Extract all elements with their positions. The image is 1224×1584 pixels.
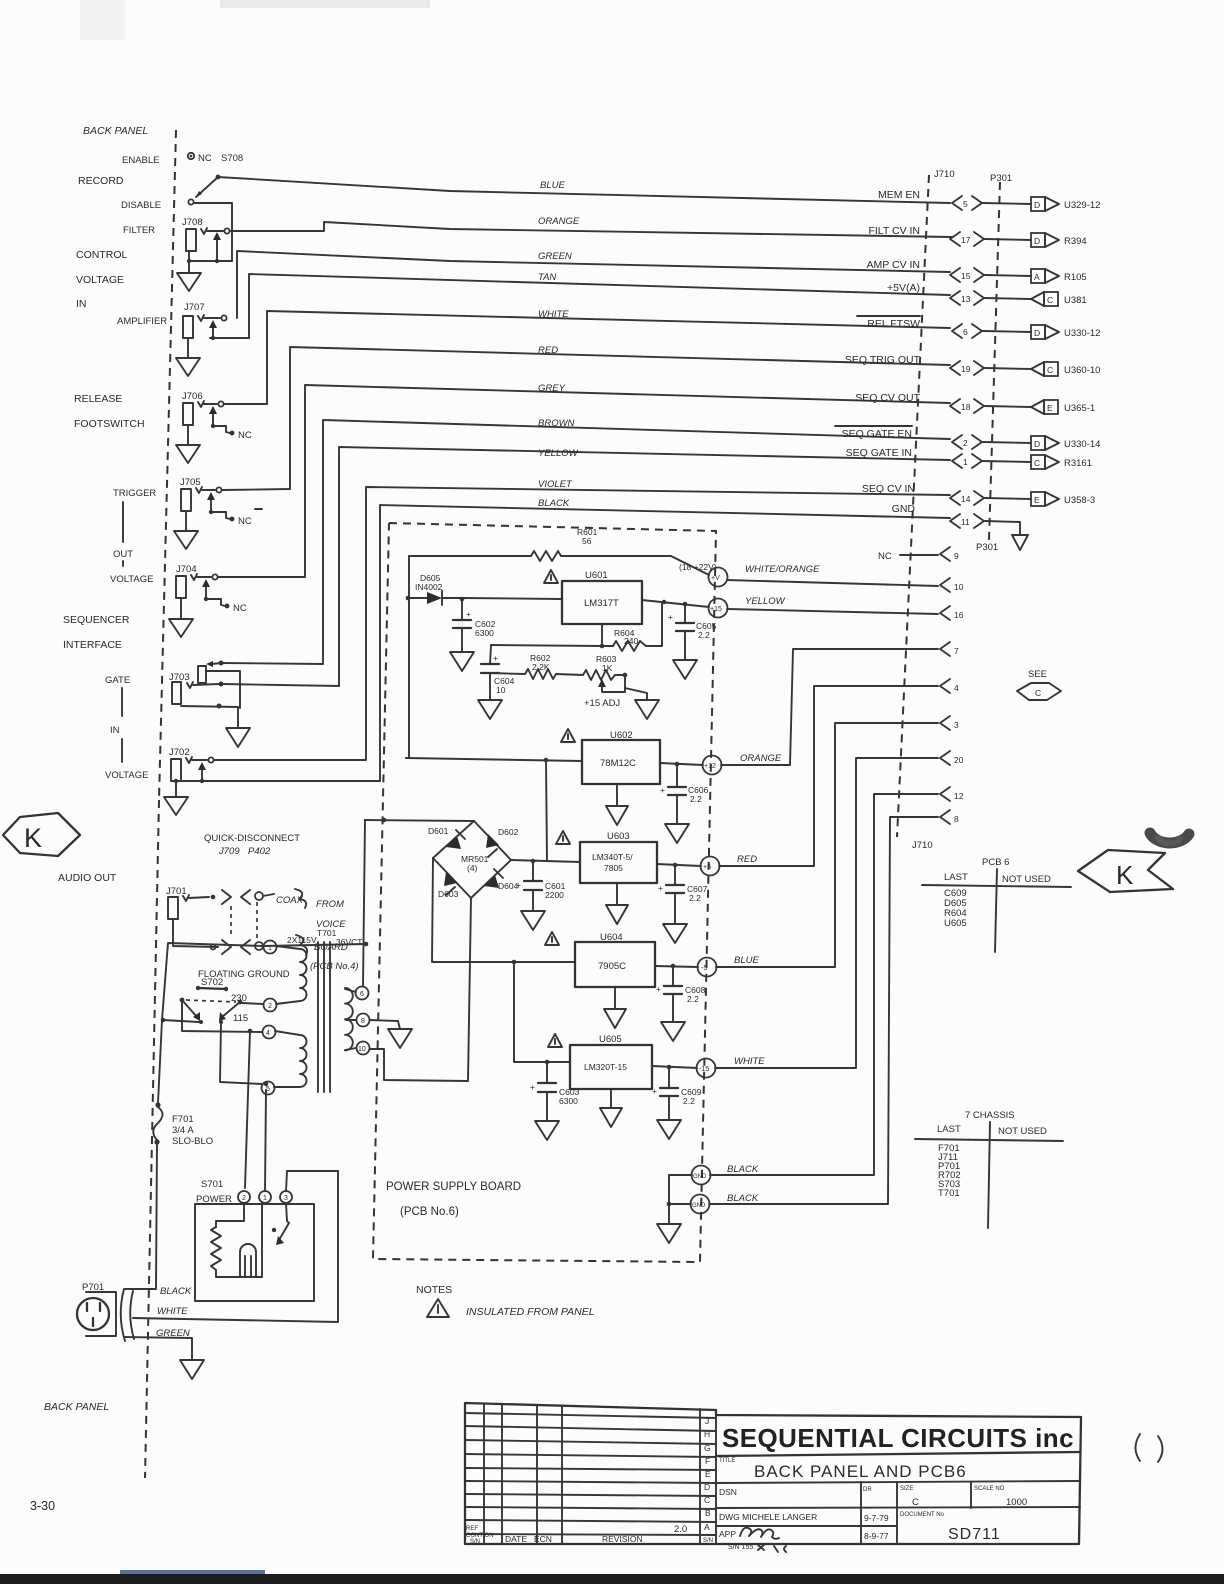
NC contact (J704) <box>206 599 225 606</box>
svg-text:PCB 6: PCB 6 <box>982 857 1009 868</box>
wire pin 5 / S701 pin 1 <box>265 1090 266 1191</box>
svg-text:U604: U604 <box>600 932 623 943</box>
svg-text:NOT USED: NOT USED <box>1002 874 1051 885</box>
svg-text:RED: RED <box>538 345 558 356</box>
svg-text:DSN: DSN <box>719 1487 737 1497</box>
svg-text:GREY: GREY <box>538 383 566 394</box>
svg-text:OUT: OUT <box>113 549 133 560</box>
switch S708 record enable/disable <box>188 153 194 159</box>
T701 core <box>317 942 319 1092</box>
svg-text:3: 3 <box>284 1195 288 1202</box>
svg-text:+5: +5 <box>703 864 711 871</box>
back panel boundary (dashed) <box>159 130 176 800</box>
svg-text:1: 1 <box>963 457 968 467</box>
ground (C603) <box>535 1121 559 1140</box>
svg-text:U602: U602 <box>610 730 633 741</box>
svg-text:+: + <box>493 653 498 663</box>
svg-text:9: 9 <box>954 551 959 561</box>
svg-text:36VCT: 36VCT <box>336 937 362 947</box>
capacitor C604 10 <box>490 645 491 664</box>
svg-text:S708: S708 <box>221 153 243 164</box>
output +5 circle <box>701 857 720 876</box>
insulated-from-panel triangle (U603) <box>556 831 570 844</box>
wire BROWN (SEQ GATE EN) <box>223 420 950 664</box>
ground (J706) <box>187 425 189 445</box>
diode D601 <box>446 836 461 849</box>
svg-text:AMP CV IN: AMP CV IN <box>867 259 920 271</box>
quick-disconnect J709 / P402 (signal) <box>222 890 231 904</box>
svg-text:18: 18 <box>961 402 971 412</box>
svg-text:LAST: LAST <box>937 1124 961 1135</box>
ground (J708) <box>188 251 190 273</box>
svg-text:NC: NC <box>198 153 212 164</box>
svg-text:RELEASE: RELEASE <box>74 393 122 405</box>
pin 8 (gnd black) <box>709 817 938 1204</box>
svg-text:BACK PANEL: BACK PANEL <box>44 1401 109 1413</box>
svg-text:7805: 7805 <box>604 863 623 873</box>
svg-text:SEQ CV OUT: SEQ CV OUT <box>855 392 920 404</box>
T701 pin 1 <box>264 941 277 954</box>
svg-text:5: 5 <box>963 199 968 209</box>
svg-text:YELLOW: YELLOW <box>538 448 579 459</box>
svg-text:10: 10 <box>358 1046 366 1053</box>
svg-text:NC: NC <box>238 430 252 441</box>
NC contact (J705) <box>211 512 230 519</box>
ground (C605) <box>673 660 697 679</box>
output -15 circle <box>697 1059 716 1078</box>
svg-text:8-9-77: 8-9-77 <box>864 1531 889 1541</box>
U605 output wire to -15 <box>652 1066 697 1068</box>
off-page flag D to U330-12 <box>1031 325 1045 339</box>
off-page flag K (left) <box>3 813 80 856</box>
wire ORANGE (FILT CV IN) <box>230 222 952 237</box>
output GND circle (pin 12) <box>692 1166 711 1185</box>
insulated-from-panel triangle (U601) <box>544 570 558 583</box>
quick-disconnect (floating ground) <box>173 919 218 947</box>
svg-text:2.0: 2.0 <box>674 1524 687 1535</box>
svg-text:U603: U603 <box>607 831 630 842</box>
ground (C601) <box>521 911 545 930</box>
svg-text:E: E <box>1034 495 1040 505</box>
svg-text:YELLOW: YELLOW <box>745 596 786 607</box>
diode D604 <box>484 875 499 888</box>
gnd circles to ground triangle <box>669 1175 692 1224</box>
svg-text:SEQ GATE EN: SEQ GATE EN <box>842 428 912 440</box>
svg-text:+12: +12 <box>704 763 716 770</box>
ground (J702) <box>175 781 177 797</box>
svg-text:15: 15 <box>961 271 971 281</box>
S701 pin 2 <box>238 1191 250 1203</box>
bridge rectifier MR501 (4) D601-D604 <box>433 821 474 858</box>
title block field dividers <box>860 1482 862 1544</box>
pin 10 (+V white/orange) <box>727 580 938 586</box>
T701 secondary winding <box>345 988 353 1050</box>
svg-text:DOCUMENT No: DOCUMENT No <box>900 1512 945 1518</box>
wire junction to S701 pin 2 <box>245 1031 250 1188</box>
svg-text:FILTER: FILTER <box>123 225 155 236</box>
svg-text:U330-12: U330-12 <box>1064 328 1100 339</box>
U601 adj rail and resistor R604 240 <box>601 624 603 646</box>
svg-text:S702: S702 <box>201 977 223 988</box>
svg-text:IN: IN <box>76 298 87 310</box>
svg-text:2X115V: 2X115V <box>287 935 317 945</box>
svg-text:+15: +15 <box>710 606 722 613</box>
svg-text:REF: REF <box>466 1526 478 1532</box>
svg-text:T701: T701 <box>938 1188 960 1199</box>
svg-text:SEQ GATE IN: SEQ GATE IN <box>846 447 912 459</box>
svg-text:BLUE: BLUE <box>734 955 759 966</box>
U602 output wire to +12 <box>660 763 703 765</box>
pin 20 (-15 white) <box>715 758 938 1068</box>
svg-text:SD711: SD711 <box>948 1526 1001 1543</box>
svg-text:DR: DR <box>863 1487 872 1493</box>
svg-text:R3161: R3161 <box>1064 458 1092 469</box>
svg-text:FILT CV IN: FILT CV IN <box>868 225 920 237</box>
voltage regulator U601 LM317T <box>562 581 642 624</box>
svg-text:BROWN: BROWN <box>538 418 575 429</box>
svg-text:TITLE: TITLE <box>719 1458 735 1464</box>
output -5 circle <box>698 958 717 977</box>
svg-text:D: D <box>1034 439 1040 449</box>
wire TAN (+5V(A)) <box>249 274 950 338</box>
ground arrow (GND pin 11) <box>985 521 1020 535</box>
T701 pin 2 <box>264 999 277 1012</box>
svg-text:SEE: SEE <box>1028 669 1047 680</box>
svg-text:2200: 2200 <box>545 890 564 900</box>
svg-text:J710: J710 <box>934 169 955 180</box>
svg-text:NC: NC <box>233 603 247 614</box>
wire WHITE (REL FTSW) <box>224 311 950 404</box>
ground (U603) <box>616 883 618 905</box>
svg-text:REVISION: REVISION <box>602 1534 643 1544</box>
svg-text:S/N: S/N <box>470 1539 480 1545</box>
svg-text:12: 12 <box>954 791 964 801</box>
svg-text:1K: 1K <box>602 663 613 673</box>
output +12 circle <box>703 756 722 775</box>
svg-text:IN4002: IN4002 <box>415 582 443 592</box>
svg-text:BLACK: BLACK <box>727 1193 759 1204</box>
svg-text:+: + <box>658 883 663 893</box>
svg-text:G: G <box>704 1443 711 1453</box>
svg-text:WHITE: WHITE <box>157 1306 188 1317</box>
off-page flag C to U360-10 (left pointing) <box>1031 362 1044 376</box>
U602 input wire <box>406 758 582 761</box>
svg-text:2.2: 2.2 <box>698 630 710 640</box>
svg-text:E: E <box>1047 403 1053 413</box>
svg-text:4: 4 <box>266 1030 270 1037</box>
svg-text:E: E <box>705 1469 711 1479</box>
capacitor C608 2.2 <box>672 966 674 986</box>
svg-text:8: 8 <box>954 814 959 824</box>
svg-text:6: 6 <box>963 327 968 337</box>
svg-text:U381: U381 <box>1064 295 1087 306</box>
svg-text:+: + <box>466 609 471 619</box>
T701 pin 4 <box>263 1026 276 1039</box>
resistor R601 <box>409 555 531 557</box>
capacitor C605 2.2 <box>684 604 686 623</box>
svg-text:2.2: 2.2 <box>683 1096 695 1106</box>
wiper (R603) <box>598 679 606 687</box>
T701 pin 6 <box>356 987 369 1000</box>
connector P301 (dashed) <box>989 182 1000 540</box>
off-page flag K (right) <box>1078 850 1173 892</box>
svg-text:APP: APP <box>719 1529 736 1539</box>
svg-text:VOLTAGE: VOLTAGE <box>110 574 153 585</box>
svg-text:C: C <box>1047 295 1053 305</box>
potentiometer R603 1K (+15 ADJ) <box>583 670 615 680</box>
resistor R602 2.2K <box>490 673 525 674</box>
capacitor C603 6300 <box>545 1060 550 1065</box>
S701 enclosure box <box>195 1204 314 1301</box>
output GND circle (pin 8) <box>691 1195 710 1214</box>
svg-text:D601: D601 <box>428 826 449 836</box>
ground (C604) <box>478 700 502 719</box>
svg-text:SCALE NO: SCALE NO <box>974 1486 1005 1492</box>
svg-text:K: K <box>1116 860 1134 890</box>
svg-text:4: 4 <box>954 683 959 693</box>
off-page flag D to U330-14 <box>1031 436 1045 450</box>
svg-text:J705: J705 <box>180 477 201 488</box>
svg-text:DWG MICHELE LANGER: DWG MICHELE LANGER <box>719 1512 817 1522</box>
svg-text:K: K <box>24 823 42 853</box>
svg-text:POWER SUPPLY BOARD: POWER SUPPLY BOARD <box>386 1181 521 1193</box>
title block outer frame <box>465 1403 1081 1544</box>
svg-text:6300: 6300 <box>475 628 494 638</box>
insulated-from-panel triangle (U602) <box>561 729 575 742</box>
svg-text:115: 115 <box>233 1013 248 1024</box>
capacitor C606 2.2 <box>676 764 678 787</box>
svg-text:LAST: LAST <box>944 872 968 883</box>
fuse F701 3/4A SLO-BLO <box>155 1102 160 1107</box>
NC contact (J706) <box>213 426 230 433</box>
wire pole to pin 4 <box>182 1000 262 1032</box>
S701 pin 1 <box>259 1191 271 1203</box>
neon lamp (S701) <box>240 1244 256 1277</box>
capacitor C609 2.2 <box>668 1067 670 1088</box>
S701 lamp resistor branch <box>216 1203 244 1227</box>
svg-text:NC: NC <box>238 516 252 527</box>
svg-text:VIOLET: VIOLET <box>538 479 573 490</box>
svg-text:+: + <box>668 612 673 622</box>
wire RED (SEQ TRIG OUT) <box>222 347 950 490</box>
wire BLACK (mains) <box>125 1288 156 1290</box>
svg-text:1: 1 <box>263 1195 267 1202</box>
bridge minus rail to U604/U605 <box>432 858 575 962</box>
svg-text:T701: T701 <box>317 928 337 938</box>
svg-text:BLACK: BLACK <box>538 498 570 509</box>
svg-text:J706: J706 <box>182 391 203 402</box>
wire VIOLET (SEQ CV IN) <box>214 487 950 760</box>
svg-text:GND: GND <box>692 1203 706 1209</box>
svg-text:TRIGGER: TRIGGER <box>113 488 156 499</box>
off-page flag C to U381 (left pointing) <box>1031 292 1044 306</box>
svg-text:SEQ TRIG OUT: SEQ TRIG OUT <box>845 354 921 366</box>
wire 115 contact to pin 5 <box>220 1022 262 1084</box>
svg-text:CONTROL: CONTROL <box>76 249 127 261</box>
scan blob (fingerprint) <box>1150 833 1189 843</box>
capacitor C602 6300 <box>460 597 465 602</box>
power supply board outline (dashed) <box>373 523 716 1262</box>
U604 output wire to -5 <box>655 966 698 967</box>
svg-text:14: 14 <box>961 494 971 504</box>
svg-text:INSULATED FROM PANEL: INSULATED FROM PANEL <box>466 1306 595 1318</box>
svg-text:20: 20 <box>954 755 964 765</box>
ground (C602) <box>450 652 474 671</box>
svg-text:1: 1 <box>268 945 272 952</box>
ground (C609) <box>657 1120 681 1139</box>
svg-text:D: D <box>704 1482 710 1492</box>
svg-text:J702: J702 <box>169 747 190 758</box>
output +V circle <box>709 568 728 587</box>
svg-text:QUICK-DISCONNECT: QUICK-DISCONNECT <box>204 833 300 844</box>
wire pin 1 to fuse <box>158 943 263 1103</box>
svg-text:2: 2 <box>268 1003 272 1010</box>
svg-text:RED: RED <box>737 854 757 865</box>
svg-text:U358-3: U358-3 <box>1064 495 1095 506</box>
svg-text:P301: P301 <box>990 173 1012 184</box>
svg-text:+: + <box>656 984 661 994</box>
revision table verticals <box>483 1404 485 1544</box>
diode D602 <box>486 834 499 848</box>
svg-text:56: 56 <box>582 536 592 546</box>
svg-text:ORANGE: ORANGE <box>740 753 782 764</box>
U601 output wire <box>642 600 709 607</box>
wire 230 contact to pin 2 <box>242 1003 263 1004</box>
svg-text:D602: D602 <box>498 827 519 837</box>
svg-text:REL FTSW: REL FTSW <box>867 318 920 330</box>
insulated-from-panel triangle (U604) <box>545 932 559 945</box>
S701 pin 3 <box>280 1191 292 1203</box>
svg-text:C: C <box>1034 458 1040 468</box>
svg-text:BLUE: BLUE <box>540 180 565 191</box>
svg-text:WHITE/ORANGE: WHITE/ORANGE <box>745 564 820 575</box>
raw supply rail loop <box>406 556 409 758</box>
svg-text:+15 ADJ: +15 ADJ <box>584 698 620 709</box>
svg-text:B: B <box>705 1508 711 1518</box>
bridge plus output to U603 <box>511 860 580 862</box>
svg-text:11: 11 <box>961 517 970 527</box>
svg-text:3/4 A: 3/4 A <box>172 1125 194 1136</box>
svg-text:-5: -5 <box>701 965 707 972</box>
svg-text:C: C <box>1035 688 1041 698</box>
svg-text:D603: D603 <box>438 889 459 899</box>
svg-text:U605: U605 <box>944 918 967 929</box>
svg-text:VOLTAGE: VOLTAGE <box>105 770 148 781</box>
svg-text:+: + <box>530 1082 535 1092</box>
svg-text:S/N 155: S/N 155 <box>728 1544 753 1551</box>
svg-text:WHITE: WHITE <box>734 1056 765 1067</box>
svg-text:ECN: ECN <box>534 1534 552 1544</box>
ground (R603) <box>625 688 647 700</box>
voltage regulator U602 78M12C <box>582 740 660 784</box>
wire S701 pin 3 outer loop to WHITE <box>133 1171 338 1322</box>
pin 16 (+15 yellow) <box>727 609 938 614</box>
svg-text:DATE: DATE <box>505 1534 527 1544</box>
svg-text:2.2: 2.2 <box>690 794 702 804</box>
svg-text:+V: +V <box>711 575 720 582</box>
svg-text:C: C <box>912 1497 919 1508</box>
svg-text:SIZE: SIZE <box>900 1486 913 1492</box>
pin 12 (gnd black) <box>710 794 938 1175</box>
svg-text:+5V(A): +5V(A) <box>887 282 920 294</box>
svg-text:D: D <box>1034 236 1040 246</box>
faint scan smudges <box>220 0 430 8</box>
pin 3 (-5 blue) <box>716 723 938 967</box>
wire BLACK (GND) <box>380 505 950 781</box>
T701 primary winding B <box>274 1031 307 1087</box>
wire GREEN (mains earth) <box>125 1337 192 1360</box>
svg-text:S701: S701 <box>201 1179 223 1190</box>
svg-text:F: F <box>705 1456 710 1466</box>
svg-text:FOOTSWITCH: FOOTSWITCH <box>74 418 145 430</box>
off-page flag E to U365-1 (left pointing) <box>1031 400 1044 414</box>
svg-text:P402: P402 <box>248 846 271 857</box>
svg-text:J: J <box>705 1416 709 1426</box>
svg-text:MEM EN: MEM EN <box>878 189 920 201</box>
svg-text:GREEN: GREEN <box>538 251 572 262</box>
voltage regulator U604 7905C <box>575 942 655 987</box>
svg-text:J708: J708 <box>182 217 203 228</box>
ground (J707) <box>187 338 189 358</box>
svg-text:J707: J707 <box>184 302 205 313</box>
ground (J703) <box>237 707 239 728</box>
svg-text:-15: -15 <box>699 1066 709 1073</box>
svg-text:GND: GND <box>693 1174 707 1180</box>
svg-text:NC: NC <box>878 551 892 562</box>
svg-text:SEQ CV IN: SEQ CV IN <box>862 483 915 495</box>
T701 pin 10 <box>357 1042 370 1055</box>
U603 output wire to +5 <box>657 864 701 866</box>
svg-text:8: 8 <box>361 1018 365 1025</box>
voltage regulator U605 LM320T-15 <box>570 1045 652 1089</box>
svg-text:2: 2 <box>242 1195 246 1202</box>
svg-text:VOLTAGE: VOLTAGE <box>76 274 124 286</box>
svg-text:240: 240 <box>624 636 638 646</box>
svg-text:SEQUENCER: SEQUENCER <box>63 614 130 626</box>
svg-text:C: C <box>704 1495 710 1505</box>
ground (U605) <box>610 1089 612 1108</box>
svg-text:DISABLE: DISABLE <box>121 200 161 211</box>
wire YELLOW (SEQ GATE IN) <box>223 447 950 686</box>
svg-text:BACK PANEL: BACK PANEL <box>83 125 148 137</box>
svg-text:19: 19 <box>961 364 971 374</box>
svg-text:13: 13 <box>961 294 971 304</box>
svg-text:A: A <box>704 1522 710 1532</box>
svg-text:INTERFACE: INTERFACE <box>63 639 122 651</box>
ground (J704) <box>180 598 182 619</box>
svg-text:SLO-BLO: SLO-BLO <box>172 1136 213 1147</box>
svg-text:LM317T: LM317T <box>584 598 619 609</box>
svg-text:+: + <box>516 880 521 890</box>
svg-text:U360-10: U360-10 <box>1064 365 1100 376</box>
off-page flag D to R394 <box>1031 233 1045 247</box>
svg-text:2.2K: 2.2K <box>532 662 550 672</box>
svg-text:(18 +22V): (18 +22V) <box>679 562 717 572</box>
ground (C608) <box>661 1022 685 1041</box>
output +15 circle <box>709 599 728 618</box>
bottom scan bar <box>0 1574 1224 1584</box>
T701 pin 8 <box>357 1014 370 1027</box>
svg-text:BLACK: BLACK <box>160 1286 192 1297</box>
svg-text:R105: R105 <box>1064 272 1087 283</box>
svg-text:IN: IN <box>110 725 120 736</box>
ground (C606) <box>665 824 689 843</box>
ground (J705) <box>185 511 187 531</box>
off-page flag D to U329-12 <box>1031 197 1045 211</box>
svg-text:17: 17 <box>961 235 971 245</box>
diode D603 <box>444 872 457 886</box>
svg-text:2.2: 2.2 <box>689 893 701 903</box>
